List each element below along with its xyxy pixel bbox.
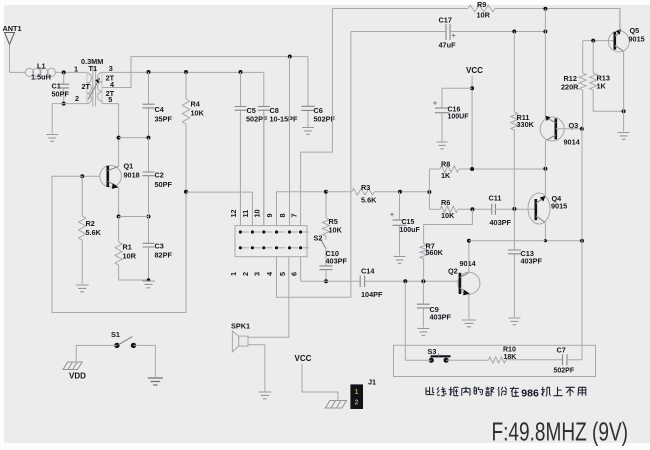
wire <box>301 280 460 282</box>
svg-text:10R: 10R <box>123 252 137 261</box>
resistor R9 <box>468 5 495 12</box>
node <box>580 239 584 243</box>
svg-text:2: 2 <box>355 400 359 407</box>
resistor R1 <box>118 217 120 243</box>
wire pin12 <box>239 112 241 226</box>
ground <box>417 329 429 336</box>
svg-text:R1: R1 <box>123 243 132 252</box>
node <box>239 70 243 74</box>
wire <box>119 137 149 139</box>
capacitor C9 <box>422 281 424 327</box>
capacitor C11 <box>492 204 496 215</box>
ground <box>46 135 58 142</box>
wire pin6 <box>300 257 302 282</box>
transformer T1 secondary <box>98 72 102 103</box>
svg-text:9018: 9018 <box>124 171 140 180</box>
wire <box>375 191 430 193</box>
node <box>288 55 292 59</box>
wire <box>52 104 87 134</box>
node <box>470 86 474 90</box>
node <box>622 109 626 113</box>
svg-text:10: 10 <box>253 209 262 217</box>
svg-text:R9: R9 <box>477 0 486 9</box>
ground <box>302 128 314 135</box>
svg-text:3: 3 <box>109 64 113 73</box>
node <box>147 136 151 140</box>
svg-text:10R: 10R <box>477 10 491 19</box>
resistor R3 <box>352 189 375 195</box>
svg-text:10-15PF: 10-15PF <box>270 115 299 124</box>
wire <box>326 191 352 193</box>
capacitor C17 electrolytic <box>446 24 450 40</box>
capacitor C2 <box>148 138 150 217</box>
capacitor C15 electrolytic <box>399 192 401 256</box>
svg-text:ANT1: ANT1 <box>3 24 22 33</box>
node <box>470 167 474 171</box>
chassis ground <box>325 401 346 409</box>
node <box>470 207 474 211</box>
resistor R12 <box>579 73 586 90</box>
wire <box>429 208 440 210</box>
wire <box>581 90 584 360</box>
node <box>62 70 66 74</box>
resistor R7 <box>420 244 427 259</box>
svg-text:R6: R6 <box>441 198 450 207</box>
wire <box>248 345 265 392</box>
svg-text:C14: C14 <box>361 267 375 276</box>
capacitor C6 <box>307 57 309 127</box>
note text (Chinese) <box>426 386 586 396</box>
wire <box>619 9 621 32</box>
node <box>512 207 516 211</box>
wire <box>102 104 119 138</box>
wire <box>458 208 492 210</box>
node <box>403 279 407 283</box>
svg-text:R10: R10 <box>503 347 516 354</box>
transformer T1 core <box>93 66 96 107</box>
svg-text:SPK1: SPK1 <box>231 321 250 330</box>
svg-text:6: 6 <box>289 272 298 276</box>
node <box>512 30 516 34</box>
ground <box>148 378 163 385</box>
frame box <box>394 345 596 376</box>
svg-text:S2: S2 <box>314 233 323 242</box>
svg-text:C7: C7 <box>557 346 566 355</box>
svg-text:1: 1 <box>74 64 78 73</box>
node <box>147 278 151 282</box>
wire <box>76 345 117 361</box>
node <box>184 190 188 194</box>
svg-text:1.5uH: 1.5uH <box>31 73 51 82</box>
node <box>543 7 547 11</box>
wire pin4 <box>277 32 351 298</box>
transistor Q4 <box>528 193 550 224</box>
wire <box>429 169 440 209</box>
wire <box>544 141 546 169</box>
wire <box>468 294 470 319</box>
svg-text:403PF: 403PF <box>490 218 512 227</box>
svg-text:100uF: 100uF <box>400 227 421 234</box>
transformer T1 tuning arrow <box>88 81 98 100</box>
wire <box>459 168 545 170</box>
wire <box>495 208 535 210</box>
svg-text:82PF: 82PF <box>155 251 173 260</box>
capacitor C1 <box>63 72 65 103</box>
svg-text:10K: 10K <box>191 109 205 118</box>
svg-text:403PF: 403PF <box>430 313 452 322</box>
node <box>427 190 431 194</box>
svg-text:2T: 2T <box>106 89 115 98</box>
node <box>398 190 402 194</box>
transformer T1 primary <box>87 73 91 104</box>
svg-text:VCC: VCC <box>295 354 312 363</box>
svg-text:35PF: 35PF <box>155 115 173 124</box>
svg-text:47uF: 47uF <box>439 41 457 50</box>
wire <box>544 169 546 197</box>
svg-text:403PF: 403PF <box>521 257 543 266</box>
svg-text:C4: C4 <box>155 105 165 114</box>
svg-text:C2: C2 <box>155 171 164 180</box>
node <box>467 239 471 243</box>
node <box>324 279 328 283</box>
svg-text:10K: 10K <box>441 211 455 220</box>
svg-text:9014: 9014 <box>460 259 477 268</box>
svg-text:7: 7 <box>289 213 298 217</box>
connector J1 <box>350 384 363 409</box>
svg-text:S3: S3 <box>428 347 437 356</box>
wire <box>119 279 149 281</box>
capacitor C14 <box>360 275 364 287</box>
svg-text:560K: 560K <box>426 248 444 257</box>
svg-text:403PF: 403PF <box>326 257 348 266</box>
wire pin8 <box>289 57 291 226</box>
svg-text:11: 11 <box>241 210 250 218</box>
node <box>184 70 188 74</box>
capacitor C3 <box>148 217 150 281</box>
resistor R4 <box>185 72 187 99</box>
transistor Q5 <box>608 31 629 52</box>
node <box>580 127 584 131</box>
wire <box>52 176 186 312</box>
wire <box>302 364 338 401</box>
wire <box>506 359 563 361</box>
svg-text:9: 9 <box>265 213 274 217</box>
svg-text:3: 3 <box>253 272 262 276</box>
wire <box>583 40 615 42</box>
svg-text:5.6K: 5.6K <box>361 196 377 205</box>
wire pin11 <box>186 192 252 226</box>
wire <box>544 9 546 117</box>
wire <box>56 71 88 73</box>
svg-text:R3: R3 <box>361 183 370 192</box>
wire <box>10 71 27 73</box>
svg-text:S1: S1 <box>111 330 120 339</box>
svg-text:1K: 1K <box>597 82 607 91</box>
node <box>80 174 84 178</box>
svg-text:220R: 220R <box>561 83 579 92</box>
node <box>147 215 151 219</box>
wire <box>119 216 149 218</box>
wire <box>556 128 582 130</box>
svg-text:1: 1 <box>229 272 238 276</box>
ground <box>618 133 630 140</box>
wire <box>423 259 425 282</box>
wire <box>404 281 406 360</box>
node <box>147 70 151 74</box>
wire rail2 <box>450 31 545 33</box>
node <box>117 215 121 219</box>
svg-text:2: 2 <box>241 272 250 276</box>
svg-text:2: 2 <box>75 94 79 103</box>
svg-text:502PF: 502PF <box>554 368 575 375</box>
svg-text:C16: C16 <box>448 107 461 114</box>
resistor R6 <box>440 206 458 212</box>
svg-text:C17: C17 <box>439 16 452 25</box>
svg-text:12: 12 <box>229 209 238 217</box>
transistor Q2 <box>458 272 480 294</box>
resistor R2 <box>81 176 83 216</box>
node <box>62 102 66 106</box>
wire <box>325 236 327 240</box>
svg-text:VCC: VCC <box>466 66 483 75</box>
node <box>117 136 121 140</box>
ground <box>258 392 271 399</box>
wire <box>471 76 473 170</box>
capacitor C8 <box>263 72 265 225</box>
svg-text:986: 986 <box>521 388 539 400</box>
wire pin10 <box>263 112 265 226</box>
capacitor C10 <box>325 249 327 282</box>
svg-text:2T: 2T <box>106 74 115 83</box>
wire <box>545 223 582 241</box>
wire <box>102 57 308 88</box>
svg-text:R8: R8 <box>441 160 450 169</box>
antenna ANT1 <box>5 33 15 45</box>
wire <box>405 359 488 361</box>
resistor R8 <box>440 166 459 172</box>
switch S1 <box>114 343 119 348</box>
wire rail <box>332 8 468 10</box>
connector box <box>235 226 307 257</box>
wire pin7 <box>301 9 333 226</box>
wire pin9 <box>277 192 327 226</box>
svg-text:5: 5 <box>278 272 287 276</box>
switch S2 <box>321 239 326 248</box>
inductor L1 <box>25 68 55 76</box>
wire <box>582 41 584 73</box>
svg-text:50PF: 50PF <box>52 89 70 98</box>
svg-text:5.6K: 5.6K <box>86 228 102 237</box>
wire <box>102 71 264 73</box>
svg-text:L1: L1 <box>37 62 46 71</box>
svg-text:J1: J1 <box>368 377 376 386</box>
svg-text:330K: 330K <box>517 120 535 129</box>
svg-text:1K: 1K <box>441 171 451 180</box>
wire rail2 <box>351 31 446 33</box>
node <box>543 30 547 34</box>
capacitor C5 <box>240 72 242 226</box>
svg-text:9015: 9015 <box>551 202 567 211</box>
capacitor C16 electrolytic <box>442 88 472 141</box>
svg-text:9014: 9014 <box>564 138 581 147</box>
wire rail <box>495 9 620 31</box>
speaker SPK1 <box>232 331 238 352</box>
svg-text:100UF: 100UF <box>448 114 470 121</box>
node <box>543 167 547 171</box>
ground <box>437 142 448 149</box>
wire <box>82 175 100 177</box>
svg-text:104PF: 104PF <box>361 290 383 299</box>
ground <box>394 257 406 264</box>
svg-text:502PF: 502PF <box>246 115 268 124</box>
transistor Q1 <box>100 165 122 187</box>
resistor R13 <box>592 41 594 73</box>
svg-text:VDD: VDD <box>69 371 86 380</box>
resistor R11 <box>513 32 515 113</box>
svg-text:T1: T1 <box>89 64 98 73</box>
svg-text:C11: C11 <box>489 194 502 203</box>
wire <box>134 345 156 377</box>
power symbol VDD <box>63 362 82 370</box>
wire <box>424 209 473 243</box>
svg-text:F:49.8MHZ (9V): F:49.8MHZ (9V) <box>492 417 629 447</box>
connector pins <box>239 230 242 233</box>
transistor Q3 <box>540 117 564 141</box>
svg-text:9015: 9015 <box>629 35 645 44</box>
switch S3 <box>429 358 434 363</box>
resistor R5 <box>322 218 329 236</box>
svg-text:50PF: 50PF <box>155 180 173 189</box>
capacitor C7 <box>563 354 568 365</box>
node <box>544 239 547 242</box>
node <box>324 190 328 194</box>
wire <box>469 240 546 242</box>
wire <box>325 192 327 218</box>
svg-text:Q2: Q2 <box>448 267 458 276</box>
svg-text:R4: R4 <box>191 100 201 109</box>
wire pin5 <box>248 257 289 338</box>
wire <box>623 51 625 132</box>
svg-text:C15: C15 <box>402 219 415 226</box>
ground <box>508 318 520 325</box>
svg-text:C3: C3 <box>155 242 164 251</box>
wire <box>468 241 470 273</box>
capacitor C4 <box>148 72 150 138</box>
ground <box>462 320 476 327</box>
node <box>591 39 595 43</box>
svg-text:10K: 10K <box>329 226 343 235</box>
svg-text:Q1: Q1 <box>124 162 134 171</box>
svg-text:1: 1 <box>355 389 359 396</box>
capacitor C13 <box>513 209 515 317</box>
ground <box>142 281 155 288</box>
svg-text:R2: R2 <box>86 219 95 228</box>
ground <box>76 285 89 292</box>
resistor R10 <box>489 357 506 363</box>
svg-text:8: 8 <box>278 213 287 217</box>
node <box>421 279 425 283</box>
wire <box>118 138 120 217</box>
svg-text:2T: 2T <box>82 82 91 91</box>
